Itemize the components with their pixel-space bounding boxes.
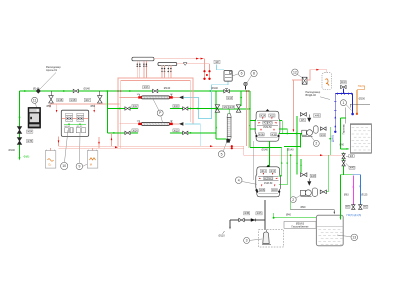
salmon drop from meter loop — [292, 80, 294, 132]
svg-text:Ж45: Ж45 — [350, 167, 356, 170]
red flow arrows double — [196, 58, 199, 60]
small relief valve on header2 line — [183, 63, 187, 66]
pump P1 in module — [66, 113, 73, 115]
flow arrow green main 1 — [24, 90, 27, 92]
magenta riser — [352, 175, 354, 205]
expansion vessel lower — [312, 188, 317, 196]
green V to bottom tank — [339, 175, 341, 220]
label J10 — [173, 105, 179, 108]
green H 147.4 with dia labels — [250, 146, 282, 148]
svg-text:3: 3 — [246, 239, 248, 243]
label J13 under valve — [227, 96, 233, 99]
valve X right — [236, 105, 241, 112]
circle 9 — [76, 163, 83, 170]
solid fuel boiler dark — [28, 107, 41, 128]
circle 4 boiler2 label — [235, 177, 242, 184]
svg-text:Ж3Б: Ж3Б — [244, 212, 250, 215]
valve X left — [215, 105, 220, 112]
main supply salmon 1 — [59, 145, 244, 147]
main step down — [243, 146, 245, 155]
flow arrow green main 2 — [63, 90, 66, 92]
flowmeter tap diamond — [36, 88, 41, 93]
svg-text:КЧМ-5К: КЧМ-5К — [264, 182, 273, 185]
blue riser — [359, 175, 361, 205]
svg-text:8: 8 — [253, 72, 255, 76]
condensate tank bottom — [316, 215, 343, 245]
pink loop drop to mains — [117, 124, 119, 147]
flow arrow green left riser — [19, 117, 21, 120]
HX2 left fitting — [138, 123, 141, 125]
blue channel left leg — [334, 94, 336, 132]
valve X1 under tank — [342, 154, 345, 159]
svg-text:2: 2 — [292, 198, 294, 202]
svg-text:Ø90: Ø90 — [340, 144, 345, 146]
pink loop around heat exchangers outer — [118, 78, 193, 124]
svg-text:Ж13: Ж13 — [269, 114, 275, 117]
header1 pins — [136, 61, 138, 67]
red arrow on main — [115, 146, 118, 148]
pump module box — [61, 110, 88, 136]
valve hx2 left — [125, 131, 130, 134]
drain left drop — [229, 220, 231, 228]
circle 7 — [218, 151, 225, 158]
svg-text:12: 12 — [293, 70, 297, 74]
valve X2 under tank — [342, 161, 345, 166]
heat exchanger HX1 bar — [142, 96, 170, 99]
blue right leg to dot — [352, 94, 354, 114]
circle 3 — [244, 237, 250, 243]
svg-text:4: 4 — [238, 178, 240, 182]
pipe salmon module stub left — [56, 104, 58, 110]
tank inlet line — [291, 209, 335, 211]
pink loop around heat exchangers inner — [121, 81, 191, 123]
svg-text:ВСД4-40: ВСД4-40 — [306, 93, 317, 97]
label J9 — [222, 106, 228, 109]
chemical tank 1 — [45, 151, 56, 169]
svg-text:Ж0Б: Ж0Б — [259, 133, 265, 136]
valve under J43 — [341, 85, 346, 88]
label right of valves — [363, 205, 368, 208]
green H at 174.7 — [340, 174, 352, 176]
green elbow under cylinder — [216, 138, 227, 140]
svg-text:Ф1 Ф2: Ф1 Ф2 — [76, 125, 83, 128]
flow arrow green main 3 — [210, 90, 213, 92]
cylinder top stub — [228, 109, 230, 114]
blue channel dashed top — [335, 93, 352, 95]
HX2 right fitting — [170, 123, 173, 125]
green risers valve group — [296, 116, 298, 175]
label J64 — [27, 130, 33, 133]
HX1 check valve right — [179, 96, 184, 100]
svg-text:Ø140: Ø140 — [212, 86, 219, 90]
main salmon right — [244, 154, 344, 156]
svg-text:Ø125: Ø125 — [361, 193, 368, 196]
label J35 — [244, 212, 250, 215]
valve J12 hx1 left — [125, 107, 130, 110]
three way valve with actuator — [307, 181, 311, 186]
svg-text:Ж14: Ж14 — [260, 114, 266, 117]
gas line green — [273, 213, 275, 218]
stub to tank1 — [50, 148, 52, 150]
svg-text:Ж13: Ж13 — [270, 170, 276, 173]
thin drain line boiler1 — [252, 141, 254, 180]
main return salmon 2 — [59, 147, 244, 149]
drain check valve — [251, 218, 256, 221]
svg-text:Ж64: Ж64 — [27, 131, 33, 134]
svg-text:9: 9 — [78, 165, 80, 169]
module bottom fittings — [65, 128, 68, 133]
label lower group — [310, 174, 316, 177]
junction dot green main — [106, 90, 108, 92]
heat exchanger HX2 bar — [142, 122, 170, 125]
pipe red header1 to safety group — [154, 58, 205, 60]
overflow thin line — [345, 107, 347, 123]
green boiler1 right connections — [279, 133, 302, 135]
svg-text:Н1 Н2: Н1 Н2 — [65, 126, 72, 128]
circle 13 — [351, 234, 358, 241]
svg-text:Ж45: Ж45 — [229, 106, 235, 109]
svg-text:Ж1В: Ж1В — [70, 99, 76, 102]
stub to tank2 — [92, 148, 94, 150]
header collector 1 — [132, 57, 154, 61]
label J45 upper right — [313, 114, 320, 117]
valve hx1 right — [183, 107, 188, 110]
air separator cylinder — [227, 114, 231, 118]
svg-text:O₂: O₂ — [48, 162, 51, 166]
pipe salmon module drop to main left — [58, 136, 60, 146]
circulation pump lower — [301, 190, 306, 195]
valve right lower — [320, 190, 326, 194]
red arrow on main 2 — [210, 145, 213, 147]
green line under HX1 right — [170, 108, 216, 110]
HX1 right fitting — [170, 96, 173, 98]
expansion vessel upper — [314, 126, 319, 133]
circle 11 boiler label — [32, 97, 38, 103]
svg-text:Ж1Б: Ж1Б — [271, 133, 277, 136]
svg-text:Ø140: Ø140 — [84, 86, 91, 90]
safety group red risers — [204, 59, 206, 79]
safety group dots — [203, 70, 205, 72]
svg-text:КЧМ-5К: КЧМ-5К — [263, 126, 272, 129]
svg-text:Ж1Б: Ж1Б — [57, 99, 63, 102]
pipe salmon header over module — [50, 103, 120, 105]
drain right riser — [264, 200, 266, 231]
valve blue bottom — [359, 205, 363, 210]
valve group under main: valve J11 — [50, 91, 52, 105]
svg-text:Ф(б): Ф(б) — [24, 155, 30, 159]
valve J75 on left riser — [17, 138, 21, 145]
label under valve upper — [320, 134, 326, 137]
svg-text:2: 2 — [315, 142, 317, 146]
valve V1 on green main — [73, 89, 78, 92]
label J45 — [229, 106, 235, 109]
pipe cyan HX2 drop — [185, 124, 200, 146]
green vert feeder — [106, 91, 108, 133]
header2 pin drops — [161, 72, 163, 79]
svg-text:Ø140: Ø140 — [9, 148, 16, 152]
svg-text:Ø50: Ø50 — [91, 105, 96, 108]
circle 2 upper — [313, 140, 319, 146]
label J13 — [57, 98, 63, 101]
svg-text:1: 1 — [342, 101, 344, 105]
svg-text:6: 6 — [241, 72, 243, 76]
junction dots pink on green main — [117, 90, 119, 92]
dot on green v241 — [240, 91, 242, 106]
chemical tank 2 — [87, 151, 98, 169]
svg-text:Ж7Б: Ж7Б — [27, 140, 33, 143]
pink stub HX1 left — [120, 97, 139, 99]
vessel R membrane tank — [322, 73, 332, 90]
svg-text:Ж10: Ж10 — [174, 105, 180, 108]
salmon loop meter to vessel R — [292, 79, 302, 81]
svg-text:M: M — [90, 162, 92, 166]
label J45 drain — [256, 212, 262, 215]
blue top H of U — [353, 174, 361, 176]
green line to boiler1 riser — [216, 108, 250, 110]
label Jn4 — [132, 129, 138, 132]
svg-text:13: 13 — [352, 236, 356, 240]
pipe green left riser — [19, 91, 21, 159]
green boiler1 left riser — [249, 91, 251, 147]
pipe salmon module stub right — [93, 104, 95, 110]
svg-text:Ø140: Ø140 — [262, 148, 269, 152]
drain line bottom — [230, 219, 265, 221]
drain device under cylinder — [227, 139, 230, 142]
svg-text:Ø63: Ø63 — [344, 193, 349, 196]
label J8 box — [214, 60, 220, 63]
svg-text:Ø110: Ø110 — [219, 234, 226, 238]
green risers to boiler2 — [281, 147, 283, 176]
red junction dots on mains — [231, 145, 233, 147]
svg-text:Ø90: Ø90 — [301, 205, 306, 209]
valve group upper: bowtie — [300, 113, 306, 117]
safety valve symbol — [245, 86, 247, 90]
svg-text:Ø200: Ø200 — [359, 97, 366, 101]
svg-text:Ж4Б: Ж4Б — [314, 114, 320, 117]
circle 10 — [61, 162, 68, 169]
svg-text:Ø140: Ø140 — [164, 86, 171, 90]
svg-text:ДУ(б): ДУ(б) — [331, 135, 335, 142]
valve with stem on main — [224, 90, 230, 93]
pipe salmon through module — [62, 117, 66, 119]
green line under HX2 right — [170, 132, 216, 134]
label J1O right — [173, 129, 179, 132]
pipe salmon module drop to main right — [98, 137, 100, 148]
label X1 — [349, 155, 354, 158]
svg-text:П1(б): П1(б) — [358, 84, 365, 88]
label Jn2 — [132, 105, 138, 108]
svg-text:10: 10 — [62, 164, 66, 168]
drain valve bowtie — [239, 218, 244, 221]
svg-text:Ж45: Ж45 — [257, 212, 263, 215]
salmon pair central drop — [245, 91, 247, 146]
pipe green main supply — [20, 90, 250, 92]
valve hx2 right — [183, 131, 188, 134]
valve right of vessel upper — [321, 127, 327, 130]
svg-text:Перелив: Перелив — [343, 124, 346, 135]
green V right of vessel — [329, 127, 331, 155]
arrow green riser end — [19, 157, 21, 160]
svg-text:Ж14: Ж14 — [133, 129, 139, 132]
leader to circle 7 — [223, 143, 226, 152]
label J43 — [340, 81, 346, 84]
green V to lower valve — [327, 155, 329, 192]
header2 pins — [161, 66, 163, 72]
svg-text:Ж10: Ж10 — [174, 129, 180, 132]
valve magenta bottom — [352, 205, 356, 210]
sump pump — [263, 232, 269, 244]
green vertical central — [215, 91, 217, 139]
svg-text:Ø40: Ø40 — [286, 212, 291, 216]
water storage tank — [350, 124, 371, 153]
valve J64 on left riser — [17, 127, 21, 134]
circle 2 lower — [290, 197, 296, 203]
valve bowtie lower group — [301, 173, 307, 177]
label upper below — [300, 119, 306, 122]
label J75 — [27, 139, 33, 142]
svg-text:Ж12: Ж12 — [133, 105, 139, 108]
svg-text:Ø50: Ø50 — [47, 105, 52, 108]
circle 12 — [292, 69, 298, 75]
boiler2 drain dot — [255, 189, 257, 191]
svg-text:Ж14: Ж14 — [261, 170, 267, 173]
svg-text:П2(б) Д1(б): П2(б) Д1(б) — [347, 213, 362, 217]
svg-text:Ø140: Ø140 — [287, 148, 294, 152]
valve J16 on green main with label — [143, 86, 149, 89]
svg-text:Газоснабжение: Газоснабжение — [292, 225, 310, 228]
HX2 check valve right — [179, 122, 184, 126]
green V boiler1 bottom to mains — [268, 141, 270, 166]
circle 6 — [238, 70, 244, 76]
pink stub HX2 left — [120, 123, 139, 125]
pipe cyan from J8 to vessel — [217, 64, 224, 69]
label left of valves — [345, 205, 350, 208]
pipe cyan vessel down — [212, 81, 228, 85]
label J16a — [84, 98, 90, 101]
pipe cyan HX1 loop — [184, 85, 212, 119]
svg-text:Ж16: Ж16 — [144, 86, 150, 89]
label J15 — [70, 98, 76, 101]
circle 1 — [340, 100, 346, 106]
gas supply text box — [284, 222, 316, 229]
svg-text:Ж48: Ж48 — [311, 175, 317, 178]
leader to circle 9 — [79, 133, 82, 163]
green V under tank with valves — [343, 152, 345, 174]
dia200 leader — [350, 104, 370, 107]
leader flowmeter — [40, 73, 57, 90]
green feed into tank — [340, 118, 342, 149]
green line under HX2 left — [107, 132, 138, 134]
svg-text:Ж43: Ж43 — [341, 81, 347, 84]
svg-text:5: 5 — [221, 152, 223, 156]
leader to circle 10 — [65, 130, 69, 162]
filter triangle upper — [307, 118, 311, 123]
label X2 — [349, 166, 355, 169]
vessel heat exchanger small — [224, 71, 232, 82]
header1 pin drops — [136, 66, 138, 78]
svg-text:11: 11 — [33, 99, 37, 103]
svg-text:Архон-01: Архон-01 — [46, 68, 58, 72]
flow arrow green main 4 — [129, 90, 132, 92]
svg-text:Ж11: Ж11 — [320, 134, 325, 137]
green line under HX1 left — [107, 108, 138, 110]
svg-text:Ж1Г: Ж1Г — [85, 99, 91, 102]
svg-text:Ж13: Ж13 — [227, 97, 233, 100]
circulation pump upper — [302, 130, 307, 135]
valve J12 — [99, 91, 101, 105]
sump pump dashed box — [259, 230, 284, 247]
pump P2 in module — [77, 113, 84, 115]
svg-text:Ж0Б: Ж0Б — [259, 189, 265, 192]
boiler 2 — [256, 167, 281, 197]
circle P gauge between HX — [157, 110, 163, 116]
svg-text:Ж1Б: Ж1Б — [272, 189, 278, 192]
header collector 2 — [158, 62, 177, 65]
pink drop HX to main — [111, 133, 113, 146]
boiler 1 — [255, 111, 280, 141]
pipe red header2 right — [177, 63, 210, 65]
water meter device — [302, 77, 307, 84]
green V 300 down — [300, 134, 302, 148]
green V to tank inlet line — [290, 155, 292, 209]
pipe green inside module — [64, 123, 86, 125]
HX1 left fitting — [138, 96, 141, 98]
circle 8 — [251, 70, 257, 76]
